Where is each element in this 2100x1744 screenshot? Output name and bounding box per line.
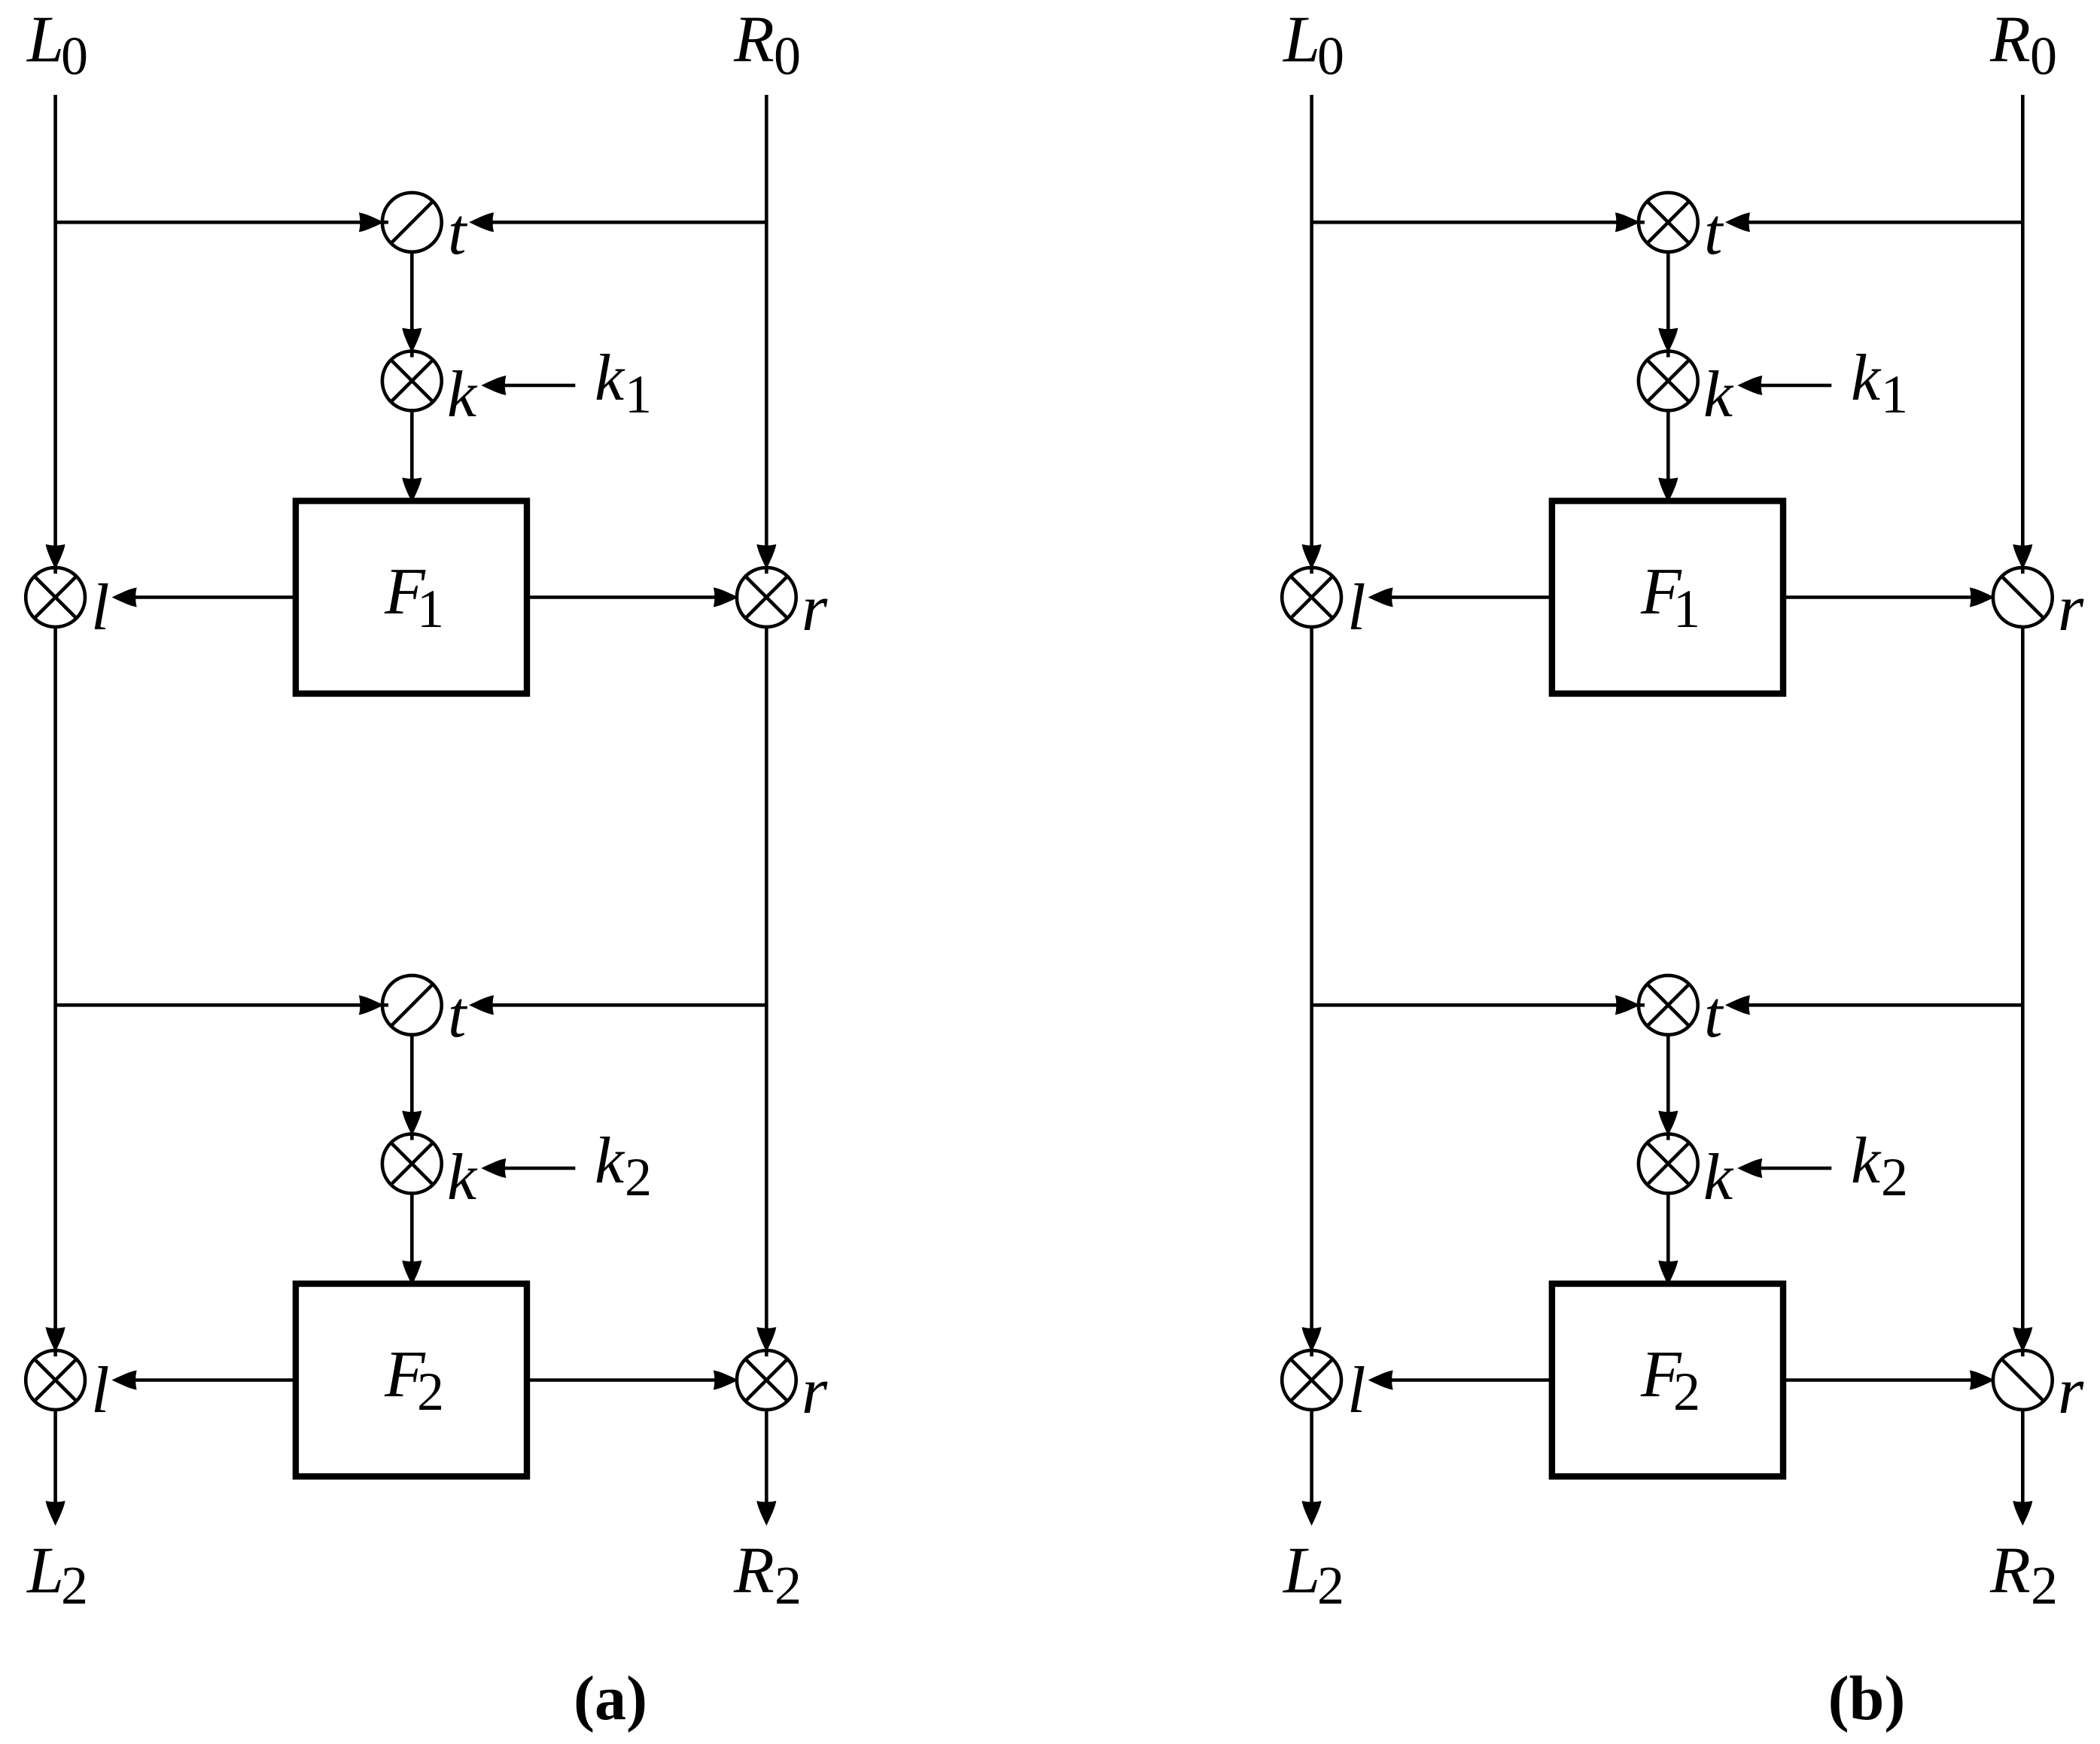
svg-text:t: t [448,196,468,269]
wire right to t1 (a) [492,221,766,224]
arrowhead to R2 (b) [2013,1501,2032,1526]
arrowhead into r2 (b) [2013,1327,2032,1352]
arrowhead into t2 left (b) [1615,995,1640,1015]
stub into r1 (a) [765,566,768,574]
wire t2 to k2 (b) [1666,1034,1670,1115]
stub into l2 (a) [53,1349,57,1356]
arrowhead F1 to r (a) [714,588,738,607]
multiply circle k2 (a) [382,1134,442,1194]
wire L0 down to l1 (b) [1310,95,1313,549]
wire k2 to F2 (a) [410,1192,414,1263]
wire l2 down to L2 (b) [1310,1409,1313,1507]
wire key k1 (a) [504,384,575,388]
arrowhead into t1 right (a) [469,212,494,232]
arrowhead F1 to r (b) [1970,588,1995,607]
wire F1 to r (a) [527,595,720,599]
stub into r2 (a) [765,1349,768,1356]
arrowhead into t1 left (a) [359,212,384,232]
arrowhead F1 to l (a) [112,588,137,607]
wire t1 to k1 (a) [410,251,414,333]
svg-text:l: l [1347,1354,1365,1427]
arrowhead F2 to r (a) [714,1371,738,1390]
wire k1 to F1 (a) [410,409,414,480]
operator circle t2 (b) [1639,975,1698,1035]
arrowhead to L2 (b) [1302,1501,1322,1526]
operator circle r2 (a) [737,1350,796,1410]
stub into k1 (a) [410,350,414,358]
arrowhead F1 to l (b) [1368,588,1393,607]
wire L0 down to l1 (a) [53,95,57,549]
wire r1 down to r2 (b) [2021,626,2025,1332]
operator circle r1 (b) [1993,568,2053,627]
stub into t1 (b) [1637,221,1645,224]
svg-text:l: l [91,1354,109,1427]
arrowhead into r2 (a) [756,1327,776,1352]
stub into r1 (b) [2021,566,2025,574]
svg-text:t: t [1704,979,1724,1052]
wire r1 down to r2 (a) [765,626,768,1332]
function box F2 (a) [296,1284,527,1477]
operator circle t1 (a) [382,193,442,252]
wire left to t2 (a) [56,1003,365,1007]
arrowhead into k1 (b) [1658,328,1678,353]
wire key k2 (b) [1761,1167,1831,1170]
wire key k2 (a) [504,1167,575,1170]
wire F2 to l (b) [1391,1378,1552,1382]
wire F2 to r (a) [527,1378,720,1382]
wire l1 down to l2 (b) [1310,626,1313,1332]
svg-text:t: t [1704,196,1724,269]
wire left to t1 (b) [1312,221,1621,224]
arrowhead into t2 right (b) [1725,995,1750,1015]
arrowhead into l1 (b) [1302,544,1322,569]
svg-text:r: r [2058,572,2084,645]
stub into l2 (b) [1310,1349,1313,1356]
svg-text:k: k [1703,1141,1734,1214]
wire r2 down to R2 (a) [765,1409,768,1507]
svg-text:(a): (a) [574,1663,647,1733]
arrowhead into k2 (a) [402,1111,422,1136]
arrowhead into t2 right (a) [469,995,494,1015]
arrowhead into l1 (a) [46,544,65,569]
wire left to t1 (a) [56,221,365,224]
wire F1 to r (b) [1783,595,1976,599]
stub into t2 (b) [1637,1003,1645,1007]
wire right to t2 (a) [492,1003,766,1007]
svg-text:t: t [448,979,468,1052]
wire R0 down to r1 (a) [765,95,768,549]
wire F1 to l (b) [1391,595,1552,599]
operator circle t2 (a) [382,975,442,1035]
svg-text:r: r [802,572,828,645]
wire F2 to r (b) [1783,1378,1976,1382]
arrowhead into k2 (b) [1658,1111,1678,1136]
arrowhead into t1 right (b) [1725,212,1750,232]
multiply circle l1 (a) [26,568,85,627]
arrowhead into F1 (b) [1658,478,1678,503]
wire l2 down to L2 (a) [53,1409,57,1507]
arrowhead into t2 left (a) [359,995,384,1015]
arrowhead to R2 (a) [756,1501,776,1526]
svg-text:r: r [2058,1355,2084,1428]
arrowhead key k2 (b) [1737,1158,1762,1178]
arrowhead into l2 (b) [1302,1327,1322,1352]
arrowhead into t1 left (b) [1615,212,1640,232]
stub into k2 (a) [410,1133,414,1140]
arrowhead key k1 (b) [1737,376,1762,395]
operator circle r2 (b) [1993,1350,2053,1410]
stub into l1 (b) [1310,566,1313,574]
arrowhead into F2 (b) [1658,1261,1678,1286]
svg-text:r: r [802,1355,828,1428]
arrowhead into l2 (a) [46,1327,65,1352]
stub into k1 (b) [1666,350,1670,358]
stub into k2 (b) [1666,1133,1670,1140]
multiply circle l2 (a) [26,1350,85,1410]
function box F1 (a) [296,501,527,694]
wire F1 to l (a) [135,595,296,599]
arrowhead into F2 (a) [402,1261,422,1286]
multiply circle k2 (b) [1639,1134,1698,1194]
wire right to t1 (b) [1748,221,2022,224]
wire key k1 (b) [1761,384,1831,388]
wire l1 down to l2 (a) [53,626,57,1332]
svg-text:k: k [447,1141,478,1214]
svg-text:(b): (b) [1828,1663,1906,1733]
wire R0 down to r1 (b) [2021,95,2025,549]
arrowhead into r1 (b) [2013,544,2032,569]
arrowhead F2 to r (b) [1970,1371,1995,1390]
stub into t2 (a) [381,1003,388,1007]
stub into r2 (b) [2021,1349,2025,1356]
arrowhead into r1 (a) [756,544,776,569]
multiply circle l1 (b) [1282,568,1341,627]
wire k1 to F1 (b) [1666,409,1670,480]
multiply circle l2 (b) [1282,1350,1341,1410]
multiply circle k1 (a) [382,352,442,411]
svg-text:k: k [447,358,478,431]
operator circle t1 (b) [1639,193,1698,252]
wire left to t2 (b) [1312,1003,1621,1007]
arrowhead into F1 (a) [402,478,422,503]
arrowhead to L2 (a) [46,1501,65,1526]
function box F2 (b) [1552,1284,1783,1477]
multiply circle k1 (b) [1639,352,1698,411]
svg-text:l: l [1347,571,1365,644]
arrowhead F2 to l (b) [1368,1371,1393,1390]
wire right to t2 (b) [1748,1003,2022,1007]
function box F1 (b) [1552,501,1783,694]
svg-text:l: l [91,571,109,644]
wire t1 to k1 (b) [1666,251,1670,333]
wire t2 to k2 (a) [410,1034,414,1115]
arrowhead into k1 (a) [402,328,422,353]
stub into t1 (a) [381,221,388,224]
wire r2 down to R2 (b) [2021,1409,2025,1507]
arrowhead key k2 (a) [481,1158,506,1178]
arrowhead F2 to l (a) [112,1371,137,1390]
wire F2 to l (a) [135,1378,296,1382]
operator circle r1 (a) [737,568,796,627]
stub into l1 (a) [53,566,57,574]
wire k2 to F2 (b) [1666,1192,1670,1263]
svg-text:k: k [1703,358,1734,431]
arrowhead key k1 (a) [481,376,506,395]
